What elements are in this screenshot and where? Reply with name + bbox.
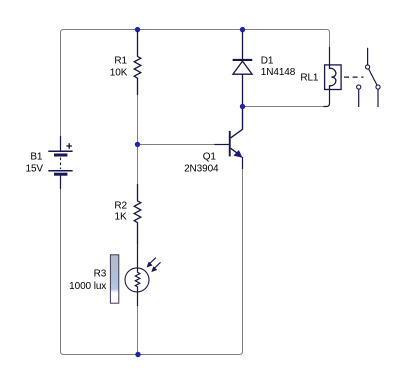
svg-text:R3: R3 xyxy=(94,268,107,279)
junction node: base node (R1/R2/base) xyxy=(135,142,140,147)
resistor R1 labels "R1" "10K" xyxy=(110,56,128,79)
svg-text:B1: B1 xyxy=(30,151,43,162)
diode D1 triangle xyxy=(233,61,252,74)
resistor R2 labels "R2" "1K" xyxy=(114,200,127,222)
diode D1 (1N4148) xyxy=(233,31,253,104)
diode D1 bottom lead xyxy=(242,74,244,104)
junction node: bottom rail / R3 branch xyxy=(135,352,140,357)
photoresistor R3 top lead xyxy=(137,244,139,273)
svg-text:2N3904: 2N3904 xyxy=(184,163,219,174)
wire: left rail below battery + bottom rail to emitter corner xyxy=(61,169,243,355)
photoresistor R3 light arrow 1 xyxy=(150,258,156,263)
battery B1 labels "B1" "15V" xyxy=(26,151,44,174)
battery B1 xyxy=(48,136,72,189)
relay RL1 top lead xyxy=(329,47,331,65)
junction node: top rail / R1 xyxy=(135,27,140,32)
battery B1 bottom lead xyxy=(60,176,62,189)
transistor Q1 emitter lead xyxy=(242,157,244,169)
battery B1 short thick plate bottom xyxy=(54,173,67,176)
svg-text:D1: D1 xyxy=(261,55,274,66)
svg-text:R2: R2 xyxy=(114,200,127,211)
switch NC terminal wire xyxy=(358,89,360,107)
svg-text:Q1: Q1 xyxy=(203,151,217,162)
wire: base node down to R2 top xyxy=(137,147,139,185)
diode D1 cathode bar xyxy=(233,59,253,61)
wire: photoresistor bottom to bottom rail xyxy=(137,306,139,355)
relay RL1 bottom lead xyxy=(324,90,330,107)
relay RL1 coil xyxy=(324,47,342,107)
switch NO terminal wire xyxy=(377,89,379,107)
battery B1 top lead xyxy=(60,136,62,151)
relay switch contacts (SPDT) xyxy=(357,48,381,107)
wire: base node to transistor base xyxy=(138,144,216,146)
svg-text:10K: 10K xyxy=(110,68,128,79)
battery B1 short thick plate top xyxy=(54,154,67,157)
relay RL1 body rectangle xyxy=(325,65,342,90)
junction node: D1 anode / collector / relay return xyxy=(240,104,245,109)
switch common terminal wire xyxy=(367,48,369,65)
wire: relay bottom return to collector node xyxy=(245,106,324,108)
diode D1 top lead xyxy=(242,31,244,60)
transistor Q1 collector xyxy=(231,107,243,138)
svg-text:RL1: RL1 xyxy=(300,72,319,83)
photoresistor R3 circle body xyxy=(125,268,149,292)
slider bar (light level indicator) xyxy=(110,255,118,303)
resistor R2 xyxy=(134,184,141,244)
relay RL1 coil winding xyxy=(330,65,336,90)
battery B1 long plate top xyxy=(48,150,72,152)
svg-text:1000 lux: 1000 lux xyxy=(69,281,106,292)
switch NC contact circle xyxy=(357,85,361,89)
photoresistor R3 labels "R3" "1000 lux" xyxy=(69,268,107,292)
photoresistor R3 (LDR) xyxy=(125,244,161,306)
transistor Q1 emitter xyxy=(231,148,240,155)
photoresistor R3 inner zigzag xyxy=(135,268,140,306)
diode D1 labels "D1" "1N4148" xyxy=(261,55,296,78)
battery B1 dashed middle link xyxy=(60,158,62,170)
svg-text:1K: 1K xyxy=(115,212,127,223)
svg-text:15V: 15V xyxy=(26,164,44,175)
resistor R1 xyxy=(134,31,141,95)
switch blade xyxy=(369,69,377,85)
svg-text:1N4148: 1N4148 xyxy=(261,67,296,78)
battery B1 long plate bottom xyxy=(48,170,72,172)
junction node: top rail / D1 xyxy=(240,27,245,32)
transistor Q1 labels "Q1" "2N3904" xyxy=(184,151,219,174)
transistor Q1 (NPN 2N3904) xyxy=(215,107,243,169)
battery B1 plus sign xyxy=(66,143,72,148)
photoresistor R3 light arrow 2 xyxy=(155,262,161,267)
transistor Q1 base lead xyxy=(215,144,229,146)
transistor Q1 emitter arrowhead xyxy=(234,151,242,158)
relay RL1 mechanical link (dashed) xyxy=(344,76,364,78)
switch common contact circle xyxy=(366,65,370,69)
switch NO contact circle xyxy=(376,85,380,89)
wire: left rail + top rail (battery positive to R1/D1/relay top) xyxy=(61,30,330,137)
wire: R1 bottom to base node xyxy=(137,95,139,142)
transistor Q1 base bar xyxy=(229,131,231,157)
svg-text:R1: R1 xyxy=(114,56,127,67)
